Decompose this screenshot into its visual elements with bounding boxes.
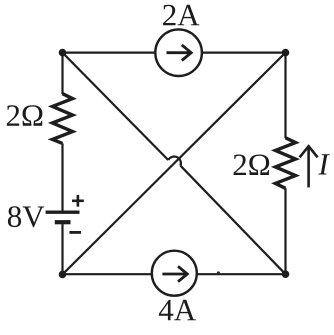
label 2 ohm (right) <box>234 155 270 176</box>
wire top-right segment <box>202 51 286 53</box>
battery V1 (8V) <box>46 212 80 222</box>
label 4A <box>159 300 196 321</box>
current source U1 (2A) <box>155 29 202 76</box>
node top-left <box>59 49 67 57</box>
label I <box>318 154 330 174</box>
wire left lower lead <box>61 224 63 274</box>
label 2A <box>163 5 199 26</box>
wire bottom-right segment <box>197 273 286 275</box>
diagonal wire TL to BR (with crossover hop) <box>63 53 286 275</box>
wire right upper lead <box>284 53 286 138</box>
wire top-left segment <box>63 51 156 53</box>
label 8V <box>8 206 44 227</box>
node bottom-right <box>282 270 290 278</box>
label 2 ohm (left) <box>7 105 43 126</box>
wire right lower lead <box>284 188 286 274</box>
resistor R1 (2 ohm, left) <box>52 94 72 144</box>
diagonal wire TR to BL <box>63 53 286 275</box>
wire bottom-left segment <box>63 273 153 275</box>
current arrow I <box>300 146 318 187</box>
wire left upper lead <box>61 53 63 94</box>
node bottom-left <box>59 271 67 279</box>
junction dot artifact on bottom wire <box>217 271 220 274</box>
node top-right <box>282 49 290 57</box>
current source U2 (4A) <box>152 251 197 296</box>
wire left middle (resistor to battery) <box>61 143 63 210</box>
resistor R2 (2 ohm, right) <box>275 138 295 189</box>
battery minus sign <box>69 231 81 234</box>
battery plus sign <box>72 195 84 207</box>
